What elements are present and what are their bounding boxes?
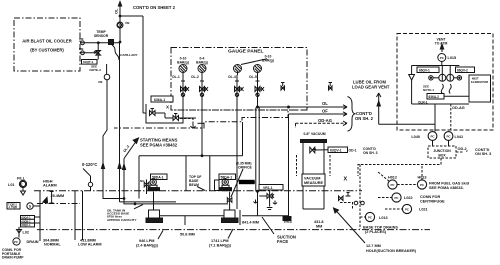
svg-text:APPROX CAPACITY: APPROX CAPACITY (107, 218, 137, 222)
svg-text:66QV-2: 66QV-2 (457, 68, 468, 72)
svg-text:CONT'D: CONT'D (475, 148, 490, 152)
svg-text:NOTE-3: NOTE-3 (90, 68, 102, 72)
svg-text:ORIFICE: ORIFICE (238, 165, 252, 169)
svg-text:AIR BLAST OIL COOLER: AIR BLAST OIL COOLER (22, 39, 71, 44)
svg-text:PC: PC (14, 240, 18, 244)
svg-text:OL: OL (322, 101, 328, 106)
svg-text:L013: L013 (379, 216, 388, 220)
svg-text:S: S (29, 205, 32, 209)
svg-text:66QV-1: 66QV-1 (419, 68, 430, 72)
svg-text:UM: UM (125, 21, 130, 25)
svg-text:ON SH. 2: ON SH. 2 (355, 116, 374, 121)
svg-text:LOW ALARM: LOW ALARM (78, 242, 101, 246)
svg-text:12.7 MM: 12.7 MM (366, 244, 381, 248)
svg-text:HOLE(SUCTION BREAKER): HOLE(SUCTION BREAKER) (366, 249, 417, 253)
svg-text:BAR(g): BAR(g) (262, 59, 274, 63)
svg-text:SEE PGMA #38633.: SEE PGMA #38633. (429, 186, 464, 190)
svg-text:PC: PC (405, 208, 410, 212)
svg-text:BAR(g): BAR(g) (196, 61, 208, 65)
svg-text:FILL: FILL (17, 177, 26, 181)
svg-text:25.4MM: 25.4MM (51, 194, 65, 198)
svg-text:58DA-1: 58DA-1 (221, 175, 233, 179)
svg-text:L015: L015 (448, 56, 457, 60)
svg-text:OF: OF (322, 108, 328, 113)
svg-text:636A-1: 636A-1 (154, 98, 165, 102)
svg-text:GAUGE PANEL: GAUGE PANEL (228, 49, 264, 55)
svg-text:CONT'D ON SHEET 2: CONT'D ON SHEET 2 (133, 5, 176, 10)
svg-text:ALARM: ALARM (43, 184, 57, 188)
svg-text:CAPILLARY: CAPILLARY (120, 53, 139, 57)
svg-text:OD-AG: OD-AG (452, 106, 465, 110)
svg-text:CENTRIFUGE: CENTRIFUGE (420, 200, 445, 204)
svg-text:L040: L040 (411, 135, 420, 139)
svg-text:L041: L041 (455, 135, 464, 139)
svg-text:PC: PC (394, 196, 399, 200)
svg-text:VR1-1: VR1-1 (263, 186, 273, 190)
svg-text:50.8 MM: 50.8 MM (180, 233, 195, 237)
svg-text:(BY CUSTOMER): (BY CUSTOMER) (30, 48, 64, 53)
svg-text:PC: PC (390, 183, 395, 187)
svg-text:1741 LPM: 1741 LPM (211, 239, 229, 243)
svg-text:58DA-1: 58DA-1 (152, 175, 164, 179)
svg-text:VACUUM: VACUUM (304, 177, 320, 181)
svg-text:(2.4 BAR(g)): (2.4 BAR(g)) (136, 244, 159, 248)
svg-text:OL-5: OL-5 (249, 75, 257, 79)
svg-text:X: X (344, 177, 348, 183)
svg-text:SENSOR: SENSOR (94, 34, 109, 38)
svg-text:0-120°C: 0-120°C (82, 162, 97, 167)
svg-text:PC: PC (440, 56, 445, 60)
svg-text:UM: UM (79, 47, 84, 51)
svg-text:PC: PC (446, 134, 451, 138)
svg-text:FACE: FACE (277, 239, 288, 244)
svg-text:DRAIN PUMP: DRAIN PUMP (2, 256, 24, 260)
svg-text:H013: H013 (417, 176, 426, 180)
svg-text:L02: L02 (23, 231, 30, 235)
svg-text:PC: PC (430, 134, 435, 138)
svg-text:LOAD GEAR VENT: LOAD GEAR VENT (352, 85, 390, 90)
svg-text:0-8″ VACUUM: 0-8″ VACUUM (304, 132, 326, 136)
svg-text:PC: PC (420, 183, 425, 187)
svg-text:JUNCTION: JUNCTION (433, 149, 451, 153)
svg-text:60QC-1: 60QC-1 (22, 223, 32, 227)
svg-text:60QA-1: 60QA-1 (22, 216, 32, 220)
svg-text:946 LPM: 946 LPM (139, 239, 154, 243)
svg-text:ELIMINATOR: ELIMINATOR (471, 80, 488, 84)
svg-text:63QV-1: 63QV-1 (330, 148, 342, 152)
svg-text:2: 2 (466, 149, 468, 153)
svg-text:L022: L022 (404, 196, 413, 200)
svg-text:OL: OL (115, 8, 119, 14)
svg-text:UM: UM (79, 37, 84, 41)
svg-text:L01: L01 (8, 183, 15, 187)
svg-text:DRAIN: DRAIN (27, 240, 39, 244)
svg-text:OL-1: OL-1 (172, 75, 180, 79)
svg-text:L021: L021 (419, 208, 428, 212)
svg-text:NORMAL: NORMAL (44, 242, 61, 246)
svg-text:NOTE-1: NOTE-1 (423, 88, 434, 92)
svg-text:ON SH. 3: ON SH. 3 (475, 152, 491, 156)
svg-text:ON SH. 3: ON SH. 3 (363, 151, 378, 155)
svg-text:BAR(g): BAR(g) (177, 61, 189, 65)
svg-text:PC: PC (368, 216, 373, 220)
svg-text:SEE PGMA #38432: SEE PGMA #38432 (140, 143, 178, 148)
svg-text:CONN FOR: CONN FOR (420, 195, 441, 199)
svg-text:OL-4: OL-4 (228, 75, 236, 79)
svg-text:60QB-1: 60QB-1 (22, 219, 32, 223)
svg-text:BOX: BOX (438, 154, 446, 158)
svg-text:PITCH: PITCH (284, 220, 292, 224)
svg-text:BEAM: BEAM (189, 183, 199, 187)
svg-text:NO: NO (140, 179, 145, 183)
svg-text:OL-2: OL-2 (191, 75, 199, 79)
svg-text:UM: UM (98, 80, 103, 84)
svg-text:X: X (166, 105, 169, 110)
svg-text:636A-2: 636A-2 (429, 95, 440, 99)
svg-text:(2 PLACES): (2 PLACES) (365, 230, 387, 234)
svg-text:FROM FUEL GAS skid: FROM FUEL GAS skid (429, 181, 470, 185)
svg-text:OLR-1: OLR-1 (418, 100, 428, 104)
svg-text:BASE TOP DRAINS: BASE TOP DRAINS (363, 225, 398, 229)
svg-text:841.4 MM: 841.4 MM (242, 220, 259, 224)
svg-text:OD-1: OD-1 (349, 148, 357, 152)
svg-text:H012: H012 (388, 176, 397, 180)
svg-text:OD-AG: OD-AG (318, 118, 332, 123)
svg-text:(7.1 BAR(g)): (7.1 BAR(g)) (209, 244, 232, 248)
svg-text:MM: MM (316, 224, 322, 228)
svg-text:-1 75QB: -1 75QB (8, 206, 17, 209)
svg-text:TO ATM: TO ATM (435, 41, 448, 45)
svg-text:PC: PC (19, 183, 23, 187)
svg-text:MEASURE: MEASURE (304, 181, 323, 185)
